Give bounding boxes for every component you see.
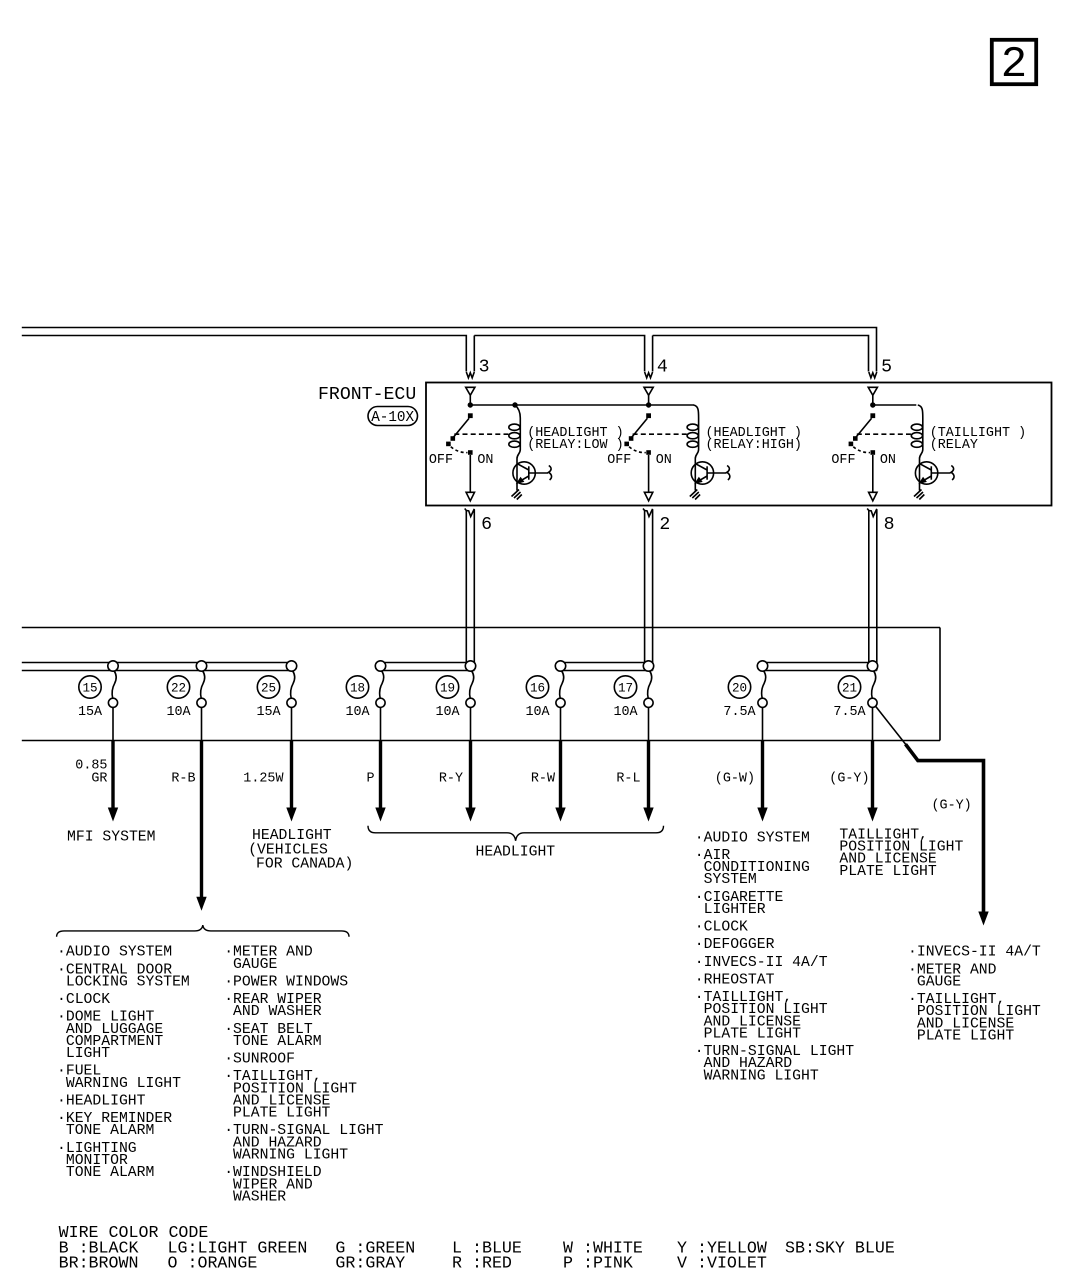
wire fuse 25 output	[291, 707, 293, 740]
svg-text:4: 4	[657, 358, 668, 378]
junction block right border	[939, 628, 941, 741]
svg-text:16: 16	[530, 681, 545, 695]
relay 2 switch common contact	[646, 413, 651, 418]
svg-text:FRONT-ECU: FRONT-ECU	[318, 385, 416, 405]
svg-text:P :PINK: P :PINK	[563, 1254, 633, 1273]
svg-text:21: 21	[842, 681, 857, 695]
ground relay 3	[914, 485, 924, 500]
svg-text:PLATE LIGHT: PLATE LIGHT	[908, 1029, 1014, 1045]
connector code A-10X	[368, 407, 418, 426]
arrow fuse 19 output	[465, 808, 475, 822]
relay 3 switch common contact	[870, 413, 875, 418]
wire relay 3 ON to output	[872, 455, 874, 492]
svg-text:ON: ON	[477, 453, 493, 468]
svg-text:GAUGE: GAUGE	[908, 974, 961, 990]
svg-text:10A: 10A	[345, 705, 370, 720]
fuse number circle 22	[167, 676, 189, 698]
svg-text:R-Y: R-Y	[439, 771, 463, 786]
relay 1 switch arm contact	[451, 436, 456, 441]
transistor Q1	[513, 462, 552, 485]
svg-text:R-W: R-W	[531, 771, 556, 786]
node relay 1 junction	[468, 402, 473, 407]
svg-text:·POWER WINDOWS: ·POWER WINDOWS	[224, 974, 348, 990]
svg-text:V :VIOLET: V :VIOLET	[677, 1254, 767, 1273]
wire pin5 to junction	[872, 395, 874, 403]
fuse F21 (7.5A)	[867, 661, 877, 708]
svg-text:OFF: OFF	[607, 453, 631, 468]
wire: pin4 right drop	[652, 336, 654, 372]
svg-text:WASHER: WASHER	[224, 1189, 286, 1205]
relay 1 pin triangle	[466, 387, 475, 395]
relay 1 throw arc	[451, 447, 468, 453]
svg-text:R-L: R-L	[616, 771, 640, 786]
svg-text:25: 25	[261, 681, 276, 695]
connector joint pin 4 (FRONT-ECU top)	[645, 372, 653, 378]
svg-text:LIGHTER: LIGHTER	[695, 902, 766, 918]
relay 1 switch common contact	[468, 413, 473, 418]
relay 3 output arrow	[869, 492, 877, 501]
relay 1 actuation dashed link	[454, 433, 508, 435]
svg-text:(G-Y): (G-Y)	[829, 771, 869, 786]
relay 1 OFF contact	[446, 442, 451, 447]
svg-text:·SUNROOF: ·SUNROOF	[224, 1052, 295, 1068]
svg-text:GR: GR	[91, 771, 107, 786]
fuse number circle 21	[838, 676, 860, 698]
svg-text:·INVECS-II 4A/T: ·INVECS-II 4A/T	[695, 955, 828, 971]
svg-text:PLATE LIGHT: PLATE LIGHT	[224, 1106, 330, 1122]
ground relay 2	[690, 485, 700, 500]
svg-text:SB:SKY BLUE: SB:SKY BLUE	[785, 1238, 895, 1257]
node relay 3 junction	[870, 402, 875, 407]
fuse number circle 15	[79, 676, 101, 698]
svg-text:7.5A: 7.5A	[833, 705, 866, 720]
wire pin3 to junction	[469, 395, 471, 403]
svg-text:7.5A: 7.5A	[723, 705, 756, 720]
svg-text:PLATE LIGHT: PLATE LIGHT	[695, 1026, 801, 1042]
relay 3 switch arm contact	[853, 436, 858, 441]
node relay 2 junction	[646, 402, 651, 407]
svg-text:15: 15	[82, 681, 97, 695]
svg-text:TONE ALARM: TONE ALARM	[57, 1123, 154, 1139]
relay 2 OFF contact	[624, 442, 629, 447]
wire coil 1 feed	[515, 405, 520, 418]
wire relay 1 ON to output	[469, 455, 471, 492]
arrow fuse 18 output	[375, 808, 385, 822]
svg-text:OFF: OFF	[831, 453, 855, 468]
svg-text:WARNING LIGHT: WARNING LIGHT	[224, 1148, 348, 1164]
fuse F20 (7.5A)	[757, 661, 767, 708]
svg-text:(G-W): (G-W)	[715, 771, 755, 786]
wire: top feed line lower segment 1	[22, 336, 467, 372]
arrow fuse 21 output	[867, 808, 877, 822]
svg-text:·CLOCK: ·CLOCK	[695, 920, 748, 936]
wire fuse 16 output	[560, 707, 562, 740]
svg-text:R :RED: R :RED	[452, 1254, 512, 1273]
wire fuse 18 output	[380, 707, 382, 740]
relay 2 pin triangle	[644, 387, 653, 395]
FRONT-ECU box U1	[426, 383, 1052, 506]
node coil 1 tap	[512, 402, 517, 407]
svg-text:·HEADLIGHT: ·HEADLIGHT	[57, 1093, 146, 1109]
relay 2 actuation dashed link	[633, 433, 687, 435]
relay coil L1	[509, 418, 520, 450]
transistor Q3	[915, 462, 954, 485]
page number box 2	[992, 40, 1036, 84]
svg-text:OFF: OFF	[429, 453, 453, 468]
relay 3 ON contact	[871, 450, 876, 455]
svg-text:ON: ON	[880, 453, 896, 468]
svg-text:2: 2	[1001, 40, 1027, 90]
load list G-Y branch	[908, 945, 1041, 1045]
junction block top border	[22, 627, 940, 629]
relay coil L3	[911, 418, 922, 450]
transistor Q2	[691, 462, 730, 485]
arrow fuse 17 output	[643, 808, 653, 822]
wire fuse 21 output	[872, 707, 874, 740]
svg-text:·AUDIO SYSTEM: ·AUDIO SYSTEM	[695, 830, 810, 846]
arrow fuse 25 output	[286, 808, 296, 822]
wire: top feed line lower segment 3	[653, 336, 869, 372]
relay 3 throw arc	[853, 447, 870, 453]
wire coil 1 to transistor	[517, 450, 520, 463]
svg-text:TONE ALARM: TONE ALARM	[224, 1034, 321, 1050]
load list G-W	[695, 830, 854, 1084]
wire: ECU rail relay3	[873, 404, 917, 406]
wire fuse 17 output	[648, 707, 650, 740]
brace R-B group	[57, 925, 349, 937]
wire: top feed line lower segment 2	[474, 336, 644, 372]
relay 2 switch arm contact	[629, 436, 634, 441]
svg-text:WARNING LIGHT: WARNING LIGHT	[695, 1068, 819, 1084]
svg-text:P: P	[367, 771, 375, 786]
wire relay 2 ON to output	[648, 455, 650, 492]
wire pin4 to junction	[648, 395, 650, 403]
svg-text:·AUDIO SYSTEM: ·AUDIO SYSTEM	[57, 945, 172, 961]
bus: taillight feed (fuses 20,21)	[763, 662, 877, 664]
svg-text:1.25W: 1.25W	[243, 771, 284, 786]
svg-text:·DEFOGGER: ·DEFOGGER	[695, 937, 775, 953]
relay 2 output arrow	[644, 492, 652, 501]
svg-text:·CLOCK: ·CLOCK	[57, 992, 110, 1008]
relay 1 output arrow	[466, 492, 474, 501]
junction block bottom border	[22, 740, 940, 742]
svg-text:5: 5	[881, 358, 892, 378]
connector joint pin 5 (FRONT-ECU top)	[869, 372, 877, 378]
svg-text:TONE ALARM: TONE ALARM	[57, 1165, 154, 1181]
relay 3 actuation dashed link	[857, 433, 911, 435]
svg-text:(G-Y): (G-Y)	[932, 799, 972, 814]
relay 3 switch arm	[856, 418, 872, 438]
wire coil 2 feed bend	[694, 405, 699, 418]
relay 2 throw arc	[629, 447, 646, 453]
load list R-B column 2	[224, 945, 383, 1206]
svg-text:LOCKING SYSTEM: LOCKING SYSTEM	[57, 974, 190, 990]
wire pin 6 drop to fuse bus	[465, 511, 467, 663]
wire fuse 20 output	[762, 707, 764, 740]
fuse number circle 16	[526, 676, 548, 698]
svg-text:(RELAY:LOW ): (RELAY:LOW )	[527, 438, 623, 453]
svg-text:PLATE LIGHT: PLATE LIGHT	[839, 864, 937, 880]
svg-text:GR:GRAY: GR:GRAY	[335, 1254, 405, 1273]
fuse number circle 25	[257, 676, 279, 698]
svg-text:O :ORANGE: O :ORANGE	[168, 1254, 258, 1273]
svg-text:GAUGE: GAUGE	[224, 957, 277, 973]
relay coil L2	[687, 418, 698, 450]
wire: ECU rail relay1-relay2	[470, 404, 694, 406]
wire coil 3 feed bend	[918, 405, 923, 418]
ground relay 1	[512, 485, 522, 500]
arrow fuse 16 output	[555, 808, 565, 822]
svg-text:6: 6	[481, 515, 492, 535]
wire color code legend	[59, 1223, 895, 1273]
fuse number circle 18	[346, 676, 368, 698]
connector joint pin 2 (FRONT-ECU bottom)	[643, 509, 653, 517]
wire: pin3 right drop	[473, 336, 475, 372]
relay 1 ON contact	[468, 450, 473, 455]
arrow fuse 20 output	[757, 808, 767, 822]
relay 3 pin triangle	[868, 387, 877, 395]
fuse F22 (10A)	[196, 661, 206, 708]
svg-text:15A: 15A	[256, 705, 281, 720]
connector joint pin 6 (FRONT-ECU bottom)	[465, 509, 475, 517]
bus: main feed (fuses 15,22,25)	[22, 662, 292, 664]
connector joint pin 8 (FRONT-ECU bottom)	[867, 509, 877, 517]
arrow fuse 15 output	[108, 808, 118, 822]
svg-text:ON: ON	[656, 453, 672, 468]
brace headlight group	[368, 826, 664, 841]
fuse F25 (15A)	[286, 661, 296, 708]
svg-text:10A: 10A	[166, 705, 191, 720]
fuse F15 (15A)	[108, 661, 118, 708]
fuse F18 (10A)	[375, 661, 385, 708]
wire coil 3 to transistor	[920, 450, 923, 463]
arrow fuse 22 output	[196, 897, 206, 911]
svg-text:(RELAY:HIGH): (RELAY:HIGH)	[706, 438, 802, 453]
connector joint pin 3 (FRONT-ECU top)	[466, 372, 474, 378]
svg-text:10A: 10A	[613, 705, 638, 720]
bus: headlight high feed (fuses 16,17)	[561, 662, 653, 664]
fuse F19 (10A)	[465, 661, 475, 708]
wire pin 2 drop to fuse bus	[644, 511, 646, 663]
load label taillight	[839, 827, 963, 879]
wire: top feed line upper	[22, 328, 877, 372]
fuse F17 (10A)	[643, 661, 653, 708]
svg-text:2: 2	[659, 515, 670, 535]
svg-text:A-10X: A-10X	[371, 410, 414, 426]
svg-text:20: 20	[732, 681, 747, 695]
wire fuse 22 output	[201, 707, 203, 740]
wire coil 2 to transistor	[695, 450, 698, 463]
wire fuse 21 branch diagonal	[876, 706, 908, 746]
svg-text:FOR CANADA): FOR CANADA)	[256, 857, 353, 873]
svg-text:BR:BROWN: BR:BROWN	[59, 1254, 139, 1273]
svg-text:LIGHT: LIGHT	[57, 1046, 110, 1062]
bus: headlight low feed (fuses 18,19)	[381, 662, 475, 664]
svg-text:SYSTEM: SYSTEM	[695, 872, 757, 888]
fuse F16 (10A)	[555, 661, 565, 708]
arrow fuse 21 branch	[978, 912, 988, 926]
fuse number circle 19	[436, 676, 458, 698]
relay 2 switch arm	[631, 418, 647, 438]
svg-text:3: 3	[479, 358, 490, 378]
svg-text:(RELAY: (RELAY	[930, 438, 978, 453]
wire fuse 15 output	[112, 707, 114, 740]
wire fuse 19 output	[470, 707, 472, 740]
fuse number circle 20	[728, 676, 750, 698]
svg-text:19: 19	[440, 681, 455, 695]
relay 2 ON contact	[646, 450, 651, 455]
svg-text:18: 18	[350, 681, 365, 695]
svg-text:17: 17	[618, 681, 633, 695]
fuse number circle 17	[614, 676, 636, 698]
load list R-B column 1	[57, 945, 190, 1181]
svg-text:·RHEOSTAT: ·RHEOSTAT	[695, 972, 775, 988]
svg-text:22: 22	[171, 681, 186, 695]
relay 1 switch arm	[453, 418, 469, 438]
relay 3 OFF contact	[849, 442, 854, 447]
svg-text:AND WASHER: AND WASHER	[224, 1004, 322, 1020]
svg-text:10A: 10A	[435, 705, 460, 720]
svg-text:R-B: R-B	[171, 771, 195, 786]
svg-text:8: 8	[884, 515, 895, 535]
svg-text:15A: 15A	[78, 705, 103, 720]
svg-text:MFI SYSTEM: MFI SYSTEM	[67, 829, 156, 845]
svg-text:HEADLIGHT: HEADLIGHT	[476, 845, 556, 861]
svg-text:·INVECS-II 4A/T: ·INVECS-II 4A/T	[908, 945, 1041, 961]
svg-text:WARNING LIGHT: WARNING LIGHT	[57, 1076, 181, 1092]
wire pin 8 drop to fuse bus	[868, 511, 870, 663]
svg-text:10A: 10A	[525, 705, 550, 720]
